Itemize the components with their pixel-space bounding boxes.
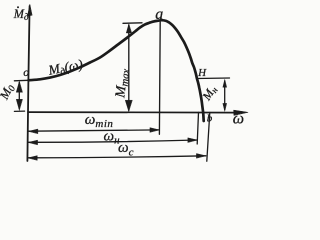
vertical line at b below axis [207, 113, 210, 162]
Mn arrow down [223, 103, 227, 111]
Mmax dimension line [128, 25, 130, 110]
Mn arrow up [223, 80, 227, 88]
x-axis arrowhead [234, 110, 248, 115]
svg-text:o: o [23, 67, 29, 79]
svg-text:ω: ω [233, 110, 244, 127]
Mn dimension line [224, 81, 226, 110]
Mmax tick [123, 22, 142, 25]
w_c arrow right [196, 154, 206, 159]
curve M(w) [29, 20, 204, 121]
w_c arrow left [28, 156, 38, 161]
M0 bottom tick [14, 110, 24, 112]
vertical line at H below axis [197, 112, 198, 144]
vertical line from peak a [158, 22, 161, 134]
M0 arrow up [16, 81, 22, 92]
M0 arrow down [16, 99, 22, 110]
w_n dimension line [28, 140, 197, 142]
w_n arrow left [28, 140, 37, 145]
w_min arrow right [150, 128, 160, 133]
Mmax arrow up [126, 24, 131, 33]
svg-text:b: b [207, 112, 213, 124]
y-axis arrowhead [28, 4, 33, 16]
svg-text:a: a [155, 6, 163, 23]
w_n arrow right [188, 138, 198, 143]
label M-dot-d (y axis) [13, 6, 29, 21]
H level line [197, 77, 230, 80]
w_c dimension line [28, 156, 206, 158]
M0 top tick [14, 79, 28, 82]
w_min arrow left [28, 129, 38, 134]
y-axis [27, 6, 29, 161]
svg-text:H: H [197, 67, 207, 79]
w_min dimension line [29, 130, 160, 131]
M0 dimension line [18, 83, 20, 109]
x-axis [28, 111, 237, 114]
Mmax arrow down [125, 100, 132, 111]
